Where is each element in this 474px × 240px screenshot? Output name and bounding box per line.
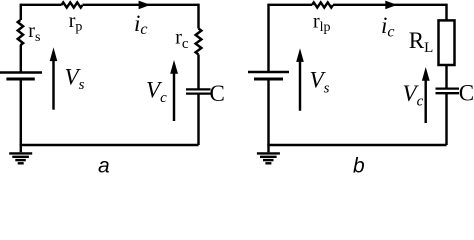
wire: circuit b bottom wire bbox=[267, 144, 446, 146]
ground (a) bar2 bbox=[12, 156, 29, 158]
battery b long plate bbox=[248, 71, 289, 73]
wire: V_s arrow shaft (b) bbox=[299, 59, 301, 111]
svg-text:Vs: Vs bbox=[65, 65, 85, 93]
ground (b) bar3 bbox=[263, 159, 274, 161]
wire: V_c arrow shaft (b) bbox=[424, 78, 426, 123]
wire: V_c arrow shaft (a) bbox=[173, 71, 175, 121]
svg-text:rs: rs bbox=[28, 20, 40, 45]
capacitor C (b) bottom plate bbox=[436, 92, 460, 94]
wire: circuit b right wire below capacitor bbox=[445, 93, 447, 145]
wire: circuit a top wire right of r_p bbox=[83, 4, 199, 6]
battery a long plate bbox=[0, 71, 42, 73]
capacitor C (b) top plate bbox=[436, 87, 460, 89]
wire: circuit a right wire between r_c and capacitor bbox=[197, 55, 199, 90]
svg-text:Vs: Vs bbox=[310, 68, 330, 97]
wire: circuit a right wire top segment bbox=[197, 4, 199, 29]
current arrowhead i_c (b) bbox=[385, 1, 397, 10]
svg-text:b: b bbox=[353, 155, 365, 176]
capacitor C (a) bottom plate bbox=[186, 92, 211, 94]
wire: circuit a left wire between r_s and battery bbox=[20, 45, 22, 72]
svg-text:rlp: rlp bbox=[313, 10, 331, 35]
svg-text:RL: RL bbox=[409, 28, 434, 56]
svg-text:C: C bbox=[459, 81, 474, 106]
ground (a) stem bbox=[20, 145, 22, 152]
V_s arrowhead (b) bbox=[296, 48, 304, 62]
battery b short plate bbox=[254, 78, 283, 81]
svg-text:ic: ic bbox=[134, 11, 148, 38]
ground (a) bar4 bbox=[18, 162, 24, 164]
ground (b) stem bbox=[267, 145, 269, 152]
wire: circuit b right wire top segment bbox=[445, 4, 447, 21]
resistor r_lp bbox=[312, 2, 333, 7]
svg-text:ic: ic bbox=[381, 13, 395, 41]
svg-text:rp: rp bbox=[69, 10, 83, 35]
svg-text:Vc: Vc bbox=[146, 77, 167, 106]
wire: V_s arrow shaft (a) bbox=[52, 59, 54, 110]
wire: circuit b top wire right of r_lp bbox=[333, 4, 447, 6]
resistor r_c bbox=[196, 29, 202, 55]
wire: circuit b right wire between R_L and capacitor bbox=[445, 65, 447, 89]
V_c arrowhead (b) bbox=[422, 67, 430, 81]
resistor r_s bbox=[18, 20, 23, 45]
wire: circuit b left wire below battery bbox=[267, 81, 269, 146]
ground (a) bar3 bbox=[15, 159, 25, 161]
current arrowhead i_c (a) bbox=[139, 1, 151, 10]
svg-text:C: C bbox=[210, 81, 225, 106]
ground (a) bar1 bbox=[9, 152, 32, 154]
battery a short plate bbox=[6, 78, 34, 81]
svg-text:rc: rc bbox=[175, 27, 189, 52]
V_s arrowhead (a) bbox=[50, 47, 58, 61]
resistor r_p bbox=[62, 2, 83, 7]
capacitor C (a) top plate bbox=[186, 88, 211, 90]
V_c arrowhead (a) bbox=[170, 60, 178, 74]
wire: circuit a top wire left of r_p bbox=[21, 4, 62, 6]
svg-text:a: a bbox=[98, 155, 110, 176]
ground (b) bar1 bbox=[257, 152, 280, 154]
wire: circuit a left wire below battery bbox=[20, 81, 22, 146]
wire: circuit a left wire top segment bbox=[20, 4, 22, 20]
wire: circuit a right wire below capacitor bbox=[197, 94, 199, 145]
ground (b) bar2 bbox=[260, 156, 277, 158]
wire: circuit a bottom wire bbox=[20, 144, 199, 146]
resistor R_L box bbox=[439, 20, 455, 65]
svg-text:Vc: Vc bbox=[403, 81, 424, 110]
ground (b) bar4 bbox=[265, 162, 271, 164]
wire: circuit b left wire above battery bbox=[267, 4, 269, 71]
wire: circuit b top wire left of r_lp bbox=[269, 4, 313, 6]
